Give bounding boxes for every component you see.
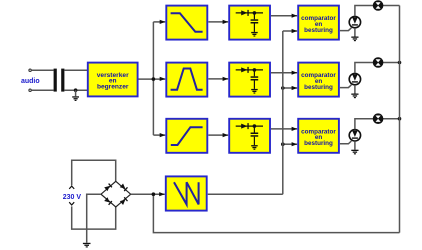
- thyristor/LED driver Q1 (circle diode): [349, 16, 360, 27]
- ground (rectifier row 2): [251, 89, 258, 94]
- wire right return bus: [399, 6, 401, 233]
- wire rectifier to comparator: [271, 128, 297, 130]
- junction lamp bus: [398, 61, 402, 65]
- capacitor C2: [251, 76, 259, 78]
- arrowhead comparator input 1: [292, 127, 298, 131]
- arrowhead comparator input 1: [292, 71, 298, 75]
- lamp L3: [374, 114, 383, 123]
- wire to high-pass filter: [153, 134, 165, 136]
- arrowhead into filter: [160, 133, 166, 137]
- sawtooth generator block U5: [166, 176, 207, 210]
- wire to ground: [354, 85, 356, 94]
- diode D2: [241, 67, 247, 72]
- wire driver to lamp to bus: [355, 119, 400, 130]
- node: audio input terminal top: [29, 69, 31, 71]
- arrowhead comparator input 2: [292, 142, 298, 146]
- wire mains top loop: [72, 160, 116, 185]
- rectifier/peak detector block (row 2): [229, 63, 270, 97]
- ground (driver row 2): [351, 94, 358, 99]
- wire transformer to versterker top: [64, 69, 88, 71]
- wire sawtooth feed: [283, 143, 297, 145]
- junction lamp bus: [398, 117, 402, 121]
- wire sawtooth feed: [283, 87, 297, 89]
- arrowhead into rectifier: [223, 133, 229, 137]
- arrowhead comparator input 2: [292, 29, 298, 33]
- low-pass filter F1: [166, 6, 207, 40]
- svg-text:audio: audio: [21, 78, 40, 85]
- wire to low-pass filter: [153, 21, 165, 23]
- ground (driver row 3): [351, 150, 358, 155]
- svg-text:besturing: besturing: [304, 140, 333, 147]
- rectifier/peak detector block (row 3): [229, 119, 270, 153]
- high-pass filter F3: [166, 119, 207, 153]
- wire bridge positive to generator: [131, 193, 165, 195]
- ground (input): [72, 96, 79, 101]
- svg-text:230 V: 230 V: [63, 194, 82, 201]
- arrowhead comparator input 1: [292, 14, 298, 18]
- wire driver to lamp to bus: [355, 6, 400, 17]
- diode D3: [241, 124, 247, 129]
- thyristor/LED driver Q2 (circle diode): [349, 73, 360, 84]
- svg-text:begrenzer: begrenzer: [97, 83, 129, 90]
- wire distribution vertical: [152, 22, 154, 135]
- wire filter to rectifier: [208, 134, 228, 136]
- comparator block U2: comparator en besturing: [298, 6, 339, 40]
- lamp L1: [374, 1, 383, 10]
- wire filter to rectifier: [208, 21, 228, 23]
- junction diode-capacitor: [253, 68, 257, 72]
- ground (rectifier row 3): [251, 145, 258, 150]
- band-pass filter F2: [166, 63, 207, 97]
- comparator block U3: comparator en besturing: [298, 63, 339, 97]
- comparator block U4: comparator en besturing: [298, 119, 339, 153]
- wire bridge negative to ground: [87, 194, 101, 243]
- wire to ground: [354, 141, 356, 150]
- wire to ground: [75, 90, 77, 96]
- arrowhead into generator: [159, 192, 165, 196]
- rectifier/peak detector block (row 1): [229, 6, 270, 40]
- thyristor/LED driver Q3 (circle diode): [349, 130, 360, 141]
- junction diode-capacitor: [253, 124, 257, 128]
- wire sawtooth vertical bus: [282, 31, 284, 194]
- wire versterker output to band-pass: [139, 78, 166, 80]
- wire transformer to versterker bottom: [64, 89, 88, 91]
- capacitor C3: [251, 133, 259, 135]
- wire driver to lamp to bus: [355, 63, 400, 74]
- ground (rectifier row 1): [251, 32, 258, 37]
- arrowhead into rectifier: [223, 20, 229, 24]
- wire filter to rectifier: [208, 78, 228, 80]
- junction sawtooth feed: [281, 142, 285, 146]
- wire comparator output: [340, 141, 352, 144]
- ground (mains): [83, 243, 91, 248]
- wire rectifier to comparator: [271, 15, 297, 17]
- svg-text:besturing: besturing: [304, 84, 333, 91]
- arrowhead into filter: [160, 77, 166, 81]
- wire comparator output: [340, 28, 352, 31]
- lamp L2: [374, 58, 383, 67]
- wire mains bottom loop: [72, 206, 116, 229]
- arrowhead into filter: [160, 20, 166, 24]
- wire bottom return bus: [153, 194, 399, 232]
- arrowhead into rectifier: [223, 77, 229, 81]
- junction distribution node: [152, 77, 156, 81]
- transformer T1 (isolation): [54, 69, 65, 92]
- capacitor C1: [251, 19, 259, 21]
- junction diode-capacitor: [253, 11, 257, 15]
- AC source V1: 230 V: [69, 186, 74, 189]
- node: audio input terminal bottom: [29, 89, 31, 91]
- wire audio top to transformer: [32, 69, 54, 71]
- wire to ground: [354, 28, 356, 36]
- junction generator input: [152, 192, 156, 196]
- ground (driver row 1): [351, 37, 358, 42]
- wire rectifier to comparator: [271, 72, 297, 74]
- amplifier/limiter block U1: versterker en begrenzer: [88, 63, 138, 97]
- wire audio bottom to transformer: [32, 89, 54, 91]
- diode D1: [241, 10, 247, 15]
- wire generator output: [208, 193, 283, 195]
- arrowhead comparator input 2: [292, 86, 298, 90]
- wire sawtooth feed: [283, 30, 297, 32]
- bridge rectifier B1: [101, 181, 131, 207]
- junction sawtooth feed: [281, 86, 285, 90]
- junction ground tap: [74, 88, 78, 92]
- svg-text:besturing: besturing: [304, 27, 333, 34]
- wire comparator output: [340, 85, 352, 88]
